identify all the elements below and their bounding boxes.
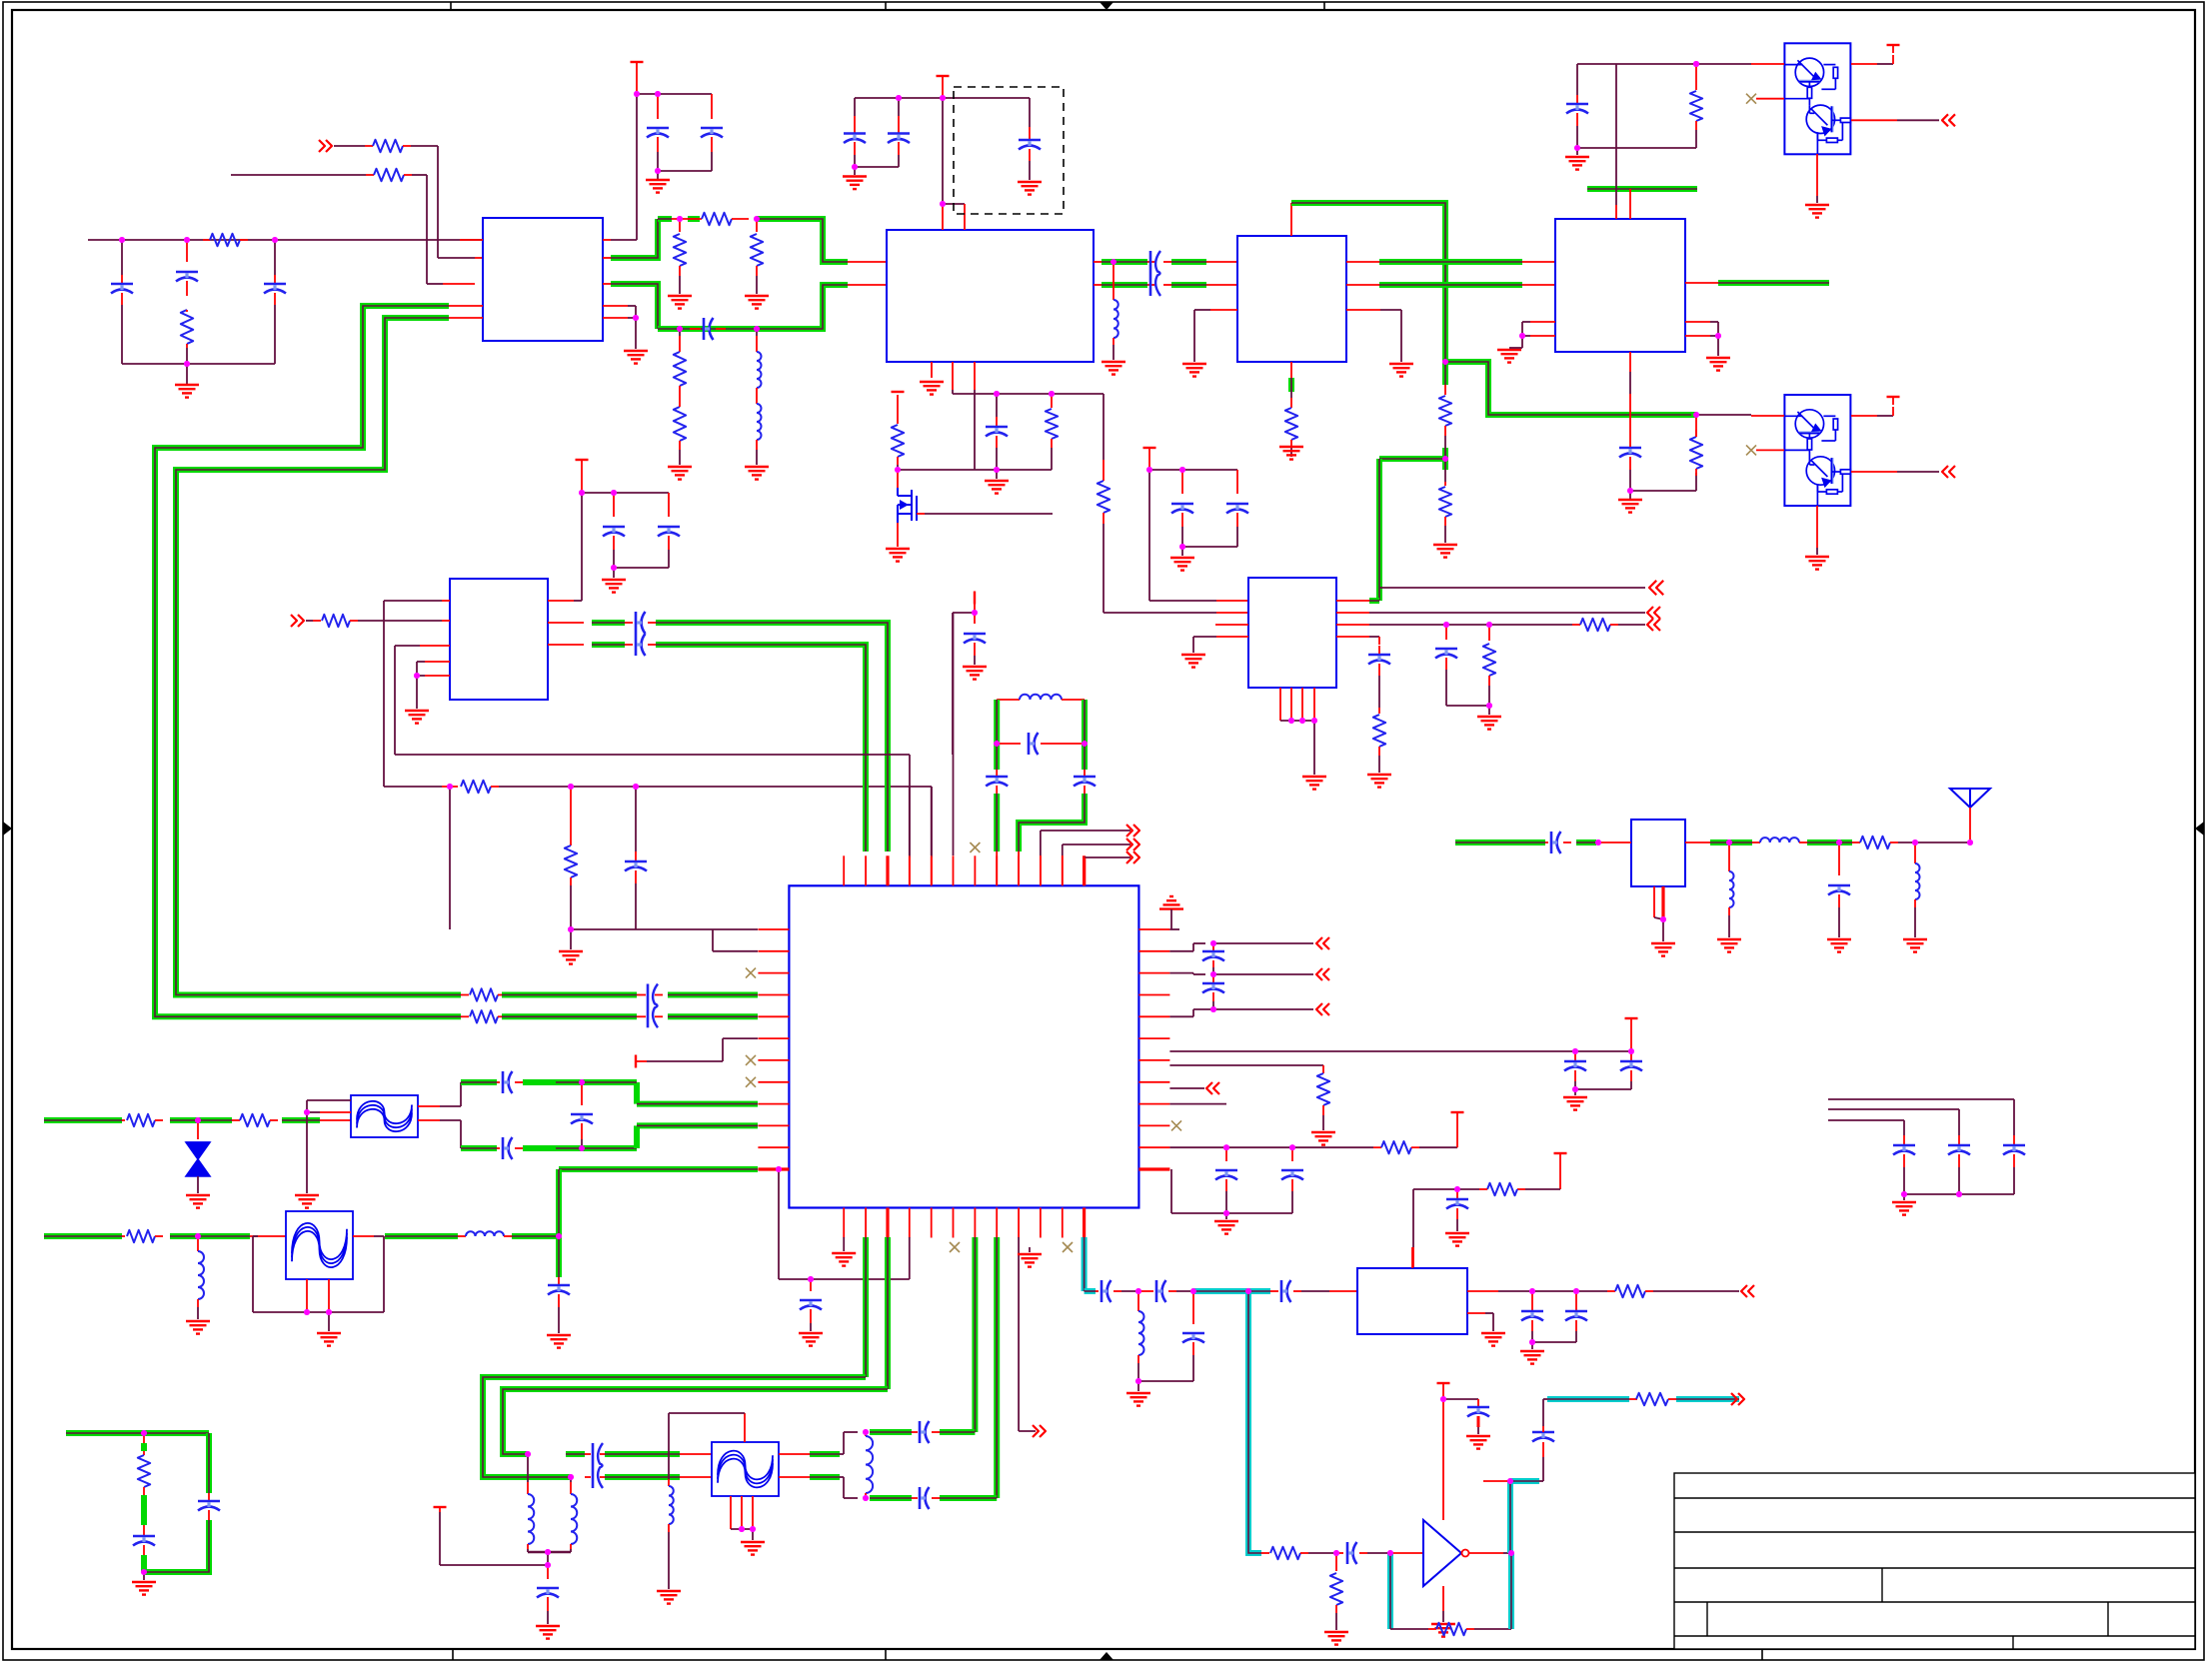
connector chevron P16 xyxy=(1738,1393,1744,1405)
wire VCC6 row xyxy=(582,492,669,494)
resistor R3 xyxy=(373,140,403,152)
cyan feedback loop xyxy=(1387,1553,1393,1629)
wire U1 pin318 red xyxy=(449,317,483,319)
mosfet Q3 xyxy=(897,470,899,488)
wire FL2 underloop xyxy=(252,1236,254,1312)
ground GND43 xyxy=(1225,1213,1227,1219)
cyan out row xyxy=(1543,1398,1547,1400)
capacitor C4 xyxy=(657,94,659,119)
capacitor C50 series xyxy=(1270,1290,1278,1292)
capacitor C7 xyxy=(854,98,856,116)
ground GND18 xyxy=(1576,148,1578,155)
green to U6 pin9 xyxy=(940,1495,997,1501)
junction node E8 xyxy=(1299,718,1305,724)
capacitor C26 series dual xyxy=(637,994,646,996)
junction node B7 xyxy=(1049,391,1055,397)
wire U2 right pin2 xyxy=(1094,284,1102,286)
junction node H2 xyxy=(1210,971,1216,977)
wire R3 to U1 pin xyxy=(403,145,411,147)
junction node H3 xyxy=(1210,1006,1216,1012)
capacitor C25 at 636 xyxy=(635,787,637,851)
wire FL1 upper left pin xyxy=(320,1111,351,1113)
ground GND3 xyxy=(668,295,692,297)
wire into inverter xyxy=(1390,1552,1423,1554)
green mid seg xyxy=(170,1117,232,1123)
cyan long down from M3 xyxy=(1248,1291,1261,1553)
capacitor C6 bridge xyxy=(690,328,701,330)
IC U3 xyxy=(1237,236,1346,362)
wire inductor tie xyxy=(528,1551,571,1554)
junction node G1 xyxy=(568,926,574,932)
ground GND29 xyxy=(1488,706,1490,715)
inductor L2 under U2 xyxy=(1112,262,1114,300)
power T VCC11 xyxy=(1451,1111,1464,1113)
inverter U11 xyxy=(1423,1520,1461,1586)
wire Q1 gnd xyxy=(1816,154,1818,196)
junction node E9 xyxy=(1311,718,1317,724)
ground GND32 xyxy=(1717,938,1741,940)
resistor R32 vertical xyxy=(143,1433,145,1443)
wire U4 right pin green stub xyxy=(1685,282,1718,284)
capacitor C24 series xyxy=(1545,841,1548,843)
green lower to U6 xyxy=(523,1145,556,1151)
junction node E3 xyxy=(1179,544,1185,550)
capacitor C52 xyxy=(1531,1291,1533,1310)
capacitor C36 xyxy=(986,776,1008,779)
ground GND34 xyxy=(1903,938,1927,940)
green after L8 xyxy=(512,1233,559,1239)
connector chevron P10 xyxy=(1316,968,1322,980)
inductor L6 tank xyxy=(997,699,1020,701)
junction node M10 xyxy=(1440,1396,1446,1402)
IC U4 xyxy=(1555,219,1685,352)
inductor L7 xyxy=(198,1251,204,1299)
wire diff pair lower green right xyxy=(668,1013,758,1019)
wire U7 bottom pins xyxy=(1279,688,1281,721)
ground GND17 xyxy=(1433,544,1457,546)
capacitor C14 xyxy=(613,493,615,517)
power T VCC4 xyxy=(1887,44,1900,46)
IC U1 xyxy=(483,218,603,341)
junction node M3 xyxy=(1245,1288,1251,1294)
wire K5 down inductor xyxy=(570,1477,572,1482)
wire net y787 row xyxy=(384,786,442,788)
wire C8 to resistor chain xyxy=(1630,490,1696,492)
capacitor C56 output xyxy=(1532,1431,1554,1434)
no-connect X6 xyxy=(746,1077,756,1087)
wire U6 bottom pin1 gnd xyxy=(843,1237,845,1251)
connector chevron P15 xyxy=(1741,1285,1747,1297)
capacitor C53 xyxy=(1575,1291,1577,1310)
capacitor C41 xyxy=(558,1277,560,1284)
wire green bottom row xyxy=(658,285,848,329)
cyan link to cap C50 xyxy=(1248,1288,1270,1294)
filter FL1 xyxy=(351,1095,418,1137)
cyan to chevron xyxy=(1676,1396,1739,1402)
wire cap cluster row3 xyxy=(1828,1119,1904,1121)
wire to FL2 xyxy=(250,1235,286,1237)
wire cap bottoms E xyxy=(1182,546,1237,548)
wire U5 right pin 623 green series cap xyxy=(548,622,584,624)
wire G chain top xyxy=(570,787,572,841)
junction node F1 xyxy=(1726,839,1732,845)
power T VCC3 xyxy=(892,391,905,393)
wire green long to mixer right xyxy=(656,623,888,851)
ground GND57 xyxy=(1531,1342,1533,1349)
ground GND53 xyxy=(741,1541,765,1543)
wire U7 right pin4 cap chain xyxy=(1336,636,1369,638)
junction node D6 xyxy=(972,610,978,616)
junction node F4 xyxy=(1967,839,1973,845)
wire R18 right xyxy=(491,786,499,788)
wire U5 pins4-5 gnd xyxy=(425,661,450,663)
inductor L10 xyxy=(571,1494,577,1544)
green horiz to U7 link xyxy=(1379,456,1445,462)
junction node D2b xyxy=(568,784,574,790)
ground GND28 xyxy=(1181,654,1205,656)
ground GND45 xyxy=(186,1194,210,1196)
wire bus corner down right xyxy=(1103,394,1105,460)
junction node E7 xyxy=(1288,718,1294,724)
power T VCC13 xyxy=(434,1506,447,1508)
junction node A3 xyxy=(272,237,278,243)
cyan feedback rise xyxy=(1508,1553,1514,1629)
wire U8 bottom pins xyxy=(1653,886,1655,917)
green diff lower to cap xyxy=(502,1013,637,1019)
junction node C8 xyxy=(1627,488,1633,494)
wire cap bottoms D xyxy=(614,567,669,569)
junction node B6 xyxy=(994,391,1000,397)
green row 1149 left xyxy=(556,1145,637,1151)
wire U1 pin1 left xyxy=(443,283,475,285)
green input upper row xyxy=(44,1117,122,1123)
wire bottom join xyxy=(122,363,275,365)
resistor R22 xyxy=(1852,841,1860,843)
junction node J3 xyxy=(195,1233,201,1239)
resistor R36 feedback xyxy=(1436,1623,1466,1635)
junction node I2 xyxy=(1082,741,1088,747)
ground GND10 xyxy=(1102,361,1125,363)
wire U6 left pin2 jog xyxy=(712,929,714,951)
wire VCC2 node xyxy=(855,97,1030,99)
capacitor C44 end xyxy=(547,1565,549,1579)
capacitor C38 xyxy=(1456,1189,1458,1198)
wire M10 branch cap xyxy=(1443,1398,1478,1400)
resistor R37 xyxy=(1636,1393,1668,1405)
junction node M12 xyxy=(1507,1478,1513,1484)
no-connect X9 xyxy=(1171,1120,1181,1130)
wire U3 right pin3 to ground xyxy=(1346,309,1380,311)
green U6 bottom pin9 xyxy=(994,1237,1000,1498)
ground GND5 xyxy=(668,466,692,468)
connector chevron P11 xyxy=(1316,1003,1322,1015)
resistor R10 xyxy=(1051,394,1053,408)
border arrow bottom center xyxy=(1100,1652,1113,1660)
capacitor C30 xyxy=(1212,974,1214,982)
inductor L4 shunt xyxy=(1728,842,1730,871)
power T VCC2 xyxy=(937,75,950,77)
ground GND12 xyxy=(996,470,998,479)
wire to dot M8 xyxy=(1308,1552,1336,1554)
green right branch xyxy=(206,1433,212,1493)
wire green top row right xyxy=(757,219,848,262)
capacitor C40 series xyxy=(497,1147,500,1149)
ground GND52 xyxy=(657,1590,681,1592)
junction node M1 xyxy=(1135,1288,1141,1294)
wire diff pair upper green right xyxy=(668,992,758,998)
IC U10 audio amp xyxy=(1357,1268,1467,1334)
green L inner xyxy=(176,318,461,995)
resistor R29 xyxy=(122,1235,125,1237)
junction node J1 xyxy=(195,1117,201,1123)
wire FL1 right upper out xyxy=(418,1105,440,1107)
power T VCC6 xyxy=(576,459,589,461)
resistor R17 xyxy=(322,615,350,627)
junction node C9 xyxy=(1693,412,1699,418)
capacitor C9 in module xyxy=(1029,98,1031,127)
wire U7 pin4 gnd xyxy=(1216,636,1248,638)
wire U6 right pin6 long VCC xyxy=(1169,1050,1631,1052)
junction node A9 xyxy=(754,216,760,222)
capacitor C48 series xyxy=(1096,1290,1099,1292)
green U6 bottom pin2 xyxy=(863,1237,869,1377)
wire U4 left lower pins xyxy=(1530,321,1555,323)
green tank left down to U6 xyxy=(994,794,1000,851)
connector chevron P2 xyxy=(1942,114,1948,126)
ground GND44 xyxy=(1445,1232,1469,1234)
wire cap cluster row1 xyxy=(1828,1098,2014,1100)
junction node E6 xyxy=(1486,703,1492,709)
resistor R33 xyxy=(1615,1285,1645,1297)
ground GND54 xyxy=(1137,1381,1139,1391)
capacitor C54 series xyxy=(1336,1552,1343,1554)
resistor R25 xyxy=(1373,1146,1381,1148)
junction node M6 xyxy=(1573,1288,1579,1294)
inductor L3 xyxy=(1752,841,1760,843)
no-connect X1 xyxy=(1746,94,1756,104)
ground GND33 xyxy=(1827,938,1851,940)
no-connect X2 xyxy=(1746,445,1756,455)
IC U5 xyxy=(450,579,548,700)
resistor R31 diff lower xyxy=(461,1015,469,1017)
wire VCC8 row xyxy=(1149,469,1237,471)
wire FL2 right out xyxy=(353,1235,374,1237)
junction node H5 xyxy=(1628,1048,1634,1054)
resistor R11 xyxy=(1098,481,1109,513)
wire U6 bottom pin4 loop xyxy=(909,1237,911,1279)
capacitor C13 xyxy=(1619,447,1641,450)
wire from C4 to right xyxy=(1576,147,1578,149)
resistor R12 xyxy=(1285,408,1297,440)
junction node G6 xyxy=(556,1233,562,1239)
ground GND20 xyxy=(1706,357,1730,359)
wire U6 left-bottom loop xyxy=(778,1169,780,1279)
ground GND26 xyxy=(963,666,987,668)
capacitor C42 xyxy=(143,1525,145,1535)
wire U6 right pin3 xyxy=(1169,972,1193,974)
wire U7 right pin2 long to connector xyxy=(1336,612,1369,614)
resistor R21 xyxy=(1378,708,1380,714)
power T VCC14 xyxy=(1437,1382,1450,1384)
inductor L9 xyxy=(528,1494,534,1544)
wire FL3 top pin loop xyxy=(744,1413,746,1442)
junction node F2 xyxy=(1836,839,1842,845)
wire Q2 collector power xyxy=(1851,415,1877,417)
wire R4 to U1 pin xyxy=(404,174,412,176)
junction node B5 xyxy=(1110,259,1116,265)
cyan U6 bottom pin12 xyxy=(1082,1237,1088,1291)
capacitor C37 xyxy=(1074,776,1096,779)
ground GND30 xyxy=(1367,774,1391,776)
wire VCC12 down xyxy=(1559,1161,1561,1189)
capacitor C17 series xyxy=(625,644,633,646)
capacitor C46 series xyxy=(912,1431,918,1433)
junction node H8 xyxy=(1289,1144,1295,1150)
wire U6 pin10 to chevron xyxy=(1040,831,1042,855)
green balun row upper left xyxy=(566,1451,585,1457)
wire down to U10 top xyxy=(1412,1247,1414,1268)
green U6 bottom pin3 xyxy=(885,1237,891,1389)
resistor R23 vertical xyxy=(570,841,572,845)
wire U6 top pin4 xyxy=(909,787,911,855)
capacitor C55 xyxy=(1467,1406,1489,1409)
green vertical x559 down xyxy=(556,1169,562,1277)
junction node B3 xyxy=(852,164,858,170)
wire to R3 xyxy=(334,145,365,147)
capacitor C8 xyxy=(898,98,900,116)
inductor L8 series xyxy=(458,1235,466,1237)
junction node B1 xyxy=(896,95,902,101)
title block xyxy=(1674,1473,2195,1649)
resistor R14 below C2 xyxy=(1444,482,1446,486)
ground GND40 inverted xyxy=(1169,895,1173,897)
wire to dot M1 xyxy=(1121,1290,1138,1292)
wire cap cluster bottom xyxy=(1904,1193,2014,1195)
ground GND25 xyxy=(613,568,615,578)
junction node B2 xyxy=(940,95,946,101)
resistor R27 xyxy=(122,1119,125,1121)
wire J3 down xyxy=(197,1236,199,1251)
green stub A4 xyxy=(1691,412,1696,418)
green C loop outer xyxy=(483,1377,866,1477)
connector chevron P5 xyxy=(1647,607,1653,619)
junction node A8 xyxy=(677,216,683,222)
wire Q2 input xyxy=(1696,414,1751,416)
inverter gnd pin xyxy=(1442,1586,1444,1611)
border tick marks bottom xyxy=(452,1649,454,1660)
capacitor C47 series xyxy=(912,1497,918,1499)
green balun row lower right xyxy=(605,1474,680,1480)
ground GND60 xyxy=(1431,1623,1455,1625)
no-connect X8 xyxy=(1063,1242,1073,1252)
ground GND50 xyxy=(143,1572,145,1580)
inductor L12 shunt xyxy=(865,1432,867,1436)
capacitor C28 xyxy=(810,1279,812,1291)
ground GND56 xyxy=(1481,1332,1505,1334)
IC U7 xyxy=(1248,578,1336,688)
junction node K1 xyxy=(141,1430,147,1436)
resistor R28 xyxy=(232,1119,240,1121)
junction node C6 xyxy=(1715,333,1721,339)
connector chevron P7 xyxy=(1649,581,1656,595)
capacitor C51 shunt xyxy=(1192,1291,1194,1324)
ground GND61 xyxy=(1903,1194,1905,1200)
green seg K2 xyxy=(141,1555,147,1572)
junction dots overlay xyxy=(119,237,125,243)
wire to dot M2 xyxy=(1176,1290,1193,1292)
IC U6 main transceiver xyxy=(789,885,1138,1207)
junction node G2 xyxy=(579,1079,585,1085)
ground GND4 xyxy=(745,295,769,297)
junction node A12 xyxy=(633,315,639,321)
connector chevron P17 xyxy=(1133,851,1139,863)
junction node A5 xyxy=(634,91,640,97)
inductor L5 shunt xyxy=(1914,842,1916,863)
ground GND39 xyxy=(1029,1247,1031,1252)
ground GND23 xyxy=(1805,556,1829,558)
capacitor C5 xyxy=(711,94,713,119)
filter FL3 balun xyxy=(712,1442,779,1496)
ground GND36 xyxy=(570,929,572,949)
wire to U7 pin2 xyxy=(1104,612,1216,614)
wire VCC8 down to U7 pin1 xyxy=(1148,470,1150,601)
junction node K6 xyxy=(545,1562,551,1568)
resistor R26 xyxy=(1525,1188,1560,1190)
wire U2 bottom pins xyxy=(952,362,954,390)
wire 975 to chevron xyxy=(1213,973,1313,975)
junction node A7 xyxy=(655,168,661,174)
wire U6 right pin8 chevron xyxy=(1169,1087,1204,1089)
wire U6 pin12 to chevron xyxy=(1085,856,1130,858)
capacitor C3 xyxy=(274,240,276,275)
connector chevron P14 xyxy=(1133,838,1139,850)
capacitor C31 xyxy=(1574,1051,1576,1060)
resistor R8 vertical lower xyxy=(679,329,681,336)
wire U5 pin3 net xyxy=(394,646,396,755)
capacitor C18 xyxy=(974,613,976,624)
wire U6 right pin11 RC net xyxy=(1169,1146,1373,1148)
junction node J5 xyxy=(326,1309,332,1315)
power T VCC1 xyxy=(631,61,644,63)
green mid seg2 xyxy=(170,1233,250,1239)
capacitor C32 xyxy=(1630,1051,1632,1060)
border arrow top center xyxy=(1100,2,1113,10)
wire cap bottoms xyxy=(658,170,712,172)
resistor R2 xyxy=(181,310,193,344)
resistor R35 shunt xyxy=(1335,1553,1337,1571)
green tank right down jog xyxy=(1019,794,1085,851)
ground GND46 xyxy=(295,1194,319,1196)
wire FL1 right lower out xyxy=(418,1119,440,1121)
connector chevron P4 xyxy=(298,615,304,627)
connector chevron P12 xyxy=(1206,1082,1212,1094)
wire U6 top pin6 xyxy=(953,613,955,855)
wire U7 pin3 stub xyxy=(1215,624,1248,626)
capacitor C29 xyxy=(1212,943,1214,950)
wire green top U4 xyxy=(1587,186,1697,192)
connector chevron P3 xyxy=(1942,466,1948,478)
junction node L3 xyxy=(739,1526,745,1532)
wire U4 bottom pin chain xyxy=(1629,352,1631,372)
wire U2 bottom pin3 long xyxy=(974,362,976,390)
junction node N2 xyxy=(1956,1191,1962,1197)
wire U2 right pin1 xyxy=(1094,261,1102,263)
connector chevron P6 xyxy=(1647,619,1653,631)
junction node C4 xyxy=(1574,145,1580,151)
green link and junction xyxy=(1442,448,1448,470)
wire U6 pin11 to chevron xyxy=(1062,844,1064,855)
wire gate row to chevron xyxy=(1379,587,1645,589)
